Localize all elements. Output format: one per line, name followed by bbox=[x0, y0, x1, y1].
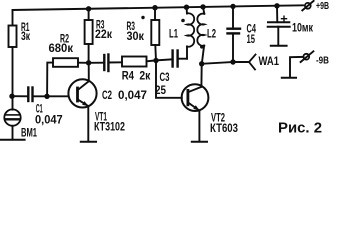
svg-text:-9В: -9В bbox=[316, 55, 329, 67]
wire tank to C4/WA1 bbox=[202, 62, 233, 64]
svg-text:L2: L2 bbox=[207, 29, 216, 41]
antenna connector WA1 bbox=[233, 55, 279, 70]
ground bar VT2 bbox=[192, 141, 207, 143]
resistor R3* 30k bbox=[127, 8, 160, 61]
ground bar VT1 bbox=[81, 141, 96, 143]
capacitor C4 bbox=[228, 6, 257, 62]
svg-text:КТ603: КТ603 bbox=[210, 123, 238, 135]
node on rail above 10uF bbox=[274, 3, 279, 8]
svg-text:30к: 30к bbox=[127, 31, 145, 43]
svg-text:680к: 680к bbox=[49, 43, 74, 55]
svg-text:Рис. 2: Рис. 2 bbox=[278, 119, 322, 136]
resistor R1 bbox=[9, 10, 31, 110]
svg-text:0,047: 0,047 bbox=[35, 114, 63, 126]
svg-text:C3: C3 bbox=[160, 72, 170, 84]
terminal -9V bbox=[290, 51, 329, 77]
resistor R4 bbox=[122, 57, 154, 83]
wire VT2 base bbox=[156, 61, 182, 98]
capacitor C2 bbox=[91, 55, 147, 103]
ground bar BM1 bbox=[1, 139, 25, 141]
svg-text:+9В: +9В bbox=[316, 0, 329, 12]
node junction R4/R3*/C3/VT2 base bbox=[153, 58, 158, 63]
electrolytic capacitor 10uF bbox=[268, 6, 313, 46]
node on rail above C4 bbox=[230, 4, 235, 9]
svg-text:3к: 3к bbox=[21, 31, 30, 43]
terminal +9V bbox=[302, 0, 329, 12]
wire VT1 collector bbox=[88, 63, 90, 81]
svg-text:15: 15 bbox=[247, 34, 256, 46]
ground bar -9V bbox=[282, 77, 296, 79]
capacitor C1 bbox=[14, 88, 63, 127]
node on rail above R3* bbox=[152, 5, 157, 10]
svg-text:L1: L1 bbox=[169, 29, 178, 41]
svg-text:ВМ1: ВМ1 bbox=[21, 128, 37, 140]
node junction L2/VT2 collector bbox=[199, 61, 204, 66]
svg-text:C2: C2 bbox=[102, 90, 112, 102]
transistor VT2 KT603 bbox=[182, 84, 238, 135]
node junction C1/R2/VT1 base bbox=[44, 94, 49, 99]
wire VT2 collector bbox=[200, 64, 202, 87]
wire VT1 emitter bbox=[87, 106, 89, 141]
microphone BM1 bbox=[4, 109, 37, 139]
node on rail above L2 bbox=[200, 4, 205, 9]
transistor VT1 KT3102 bbox=[68, 79, 125, 133]
svg-text:2к: 2к bbox=[139, 70, 150, 82]
inductor L1 bbox=[169, 7, 194, 59]
wire VT1 base bbox=[47, 95, 68, 97]
inductor L2 bbox=[197, 7, 216, 64]
svg-text:КТ3102: КТ3102 bbox=[94, 122, 125, 134]
resistor R2 bbox=[47, 34, 86, 97]
svg-text:0,047: 0,047 bbox=[118, 90, 147, 102]
svg-text:10мк: 10мк bbox=[292, 23, 313, 35]
wire top +9V rail bbox=[13, 5, 304, 10]
node on rail above R3 bbox=[86, 6, 91, 11]
wire VT2 emitter bbox=[198, 111, 200, 142]
node junction C4/WA1 bbox=[230, 59, 235, 64]
ground bar 10uF bbox=[271, 45, 287, 47]
capacitor C3 bbox=[155, 51, 187, 98]
node junction R2/R3/VT1 collector/C2 bbox=[86, 60, 91, 65]
resistor R3 22k bbox=[85, 9, 113, 61]
svg-text:22к: 22к bbox=[95, 29, 112, 41]
node on rail above L1 bbox=[184, 5, 189, 10]
svg-text:R4: R4 bbox=[122, 70, 135, 82]
svg-text:WA1: WA1 bbox=[259, 56, 280, 68]
node junction R1/C1/BM1 bbox=[9, 94, 14, 99]
